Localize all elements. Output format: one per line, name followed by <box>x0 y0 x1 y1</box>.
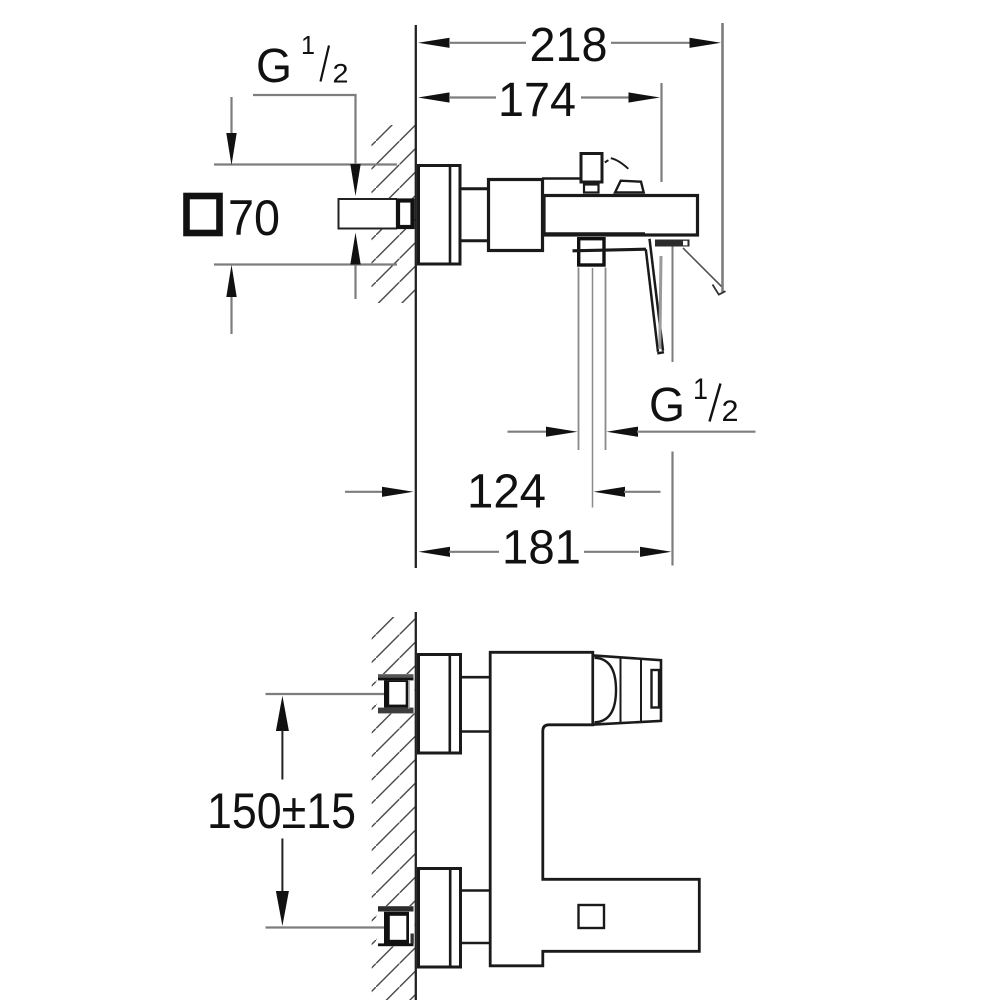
handle knob (front view) <box>593 655 661 724</box>
upper inlet flange bars <box>377 674 415 714</box>
reference line upper mount <box>266 693 385 695</box>
svg-text:218: 218 <box>530 19 608 72</box>
svg-text:1: 1 <box>693 373 708 406</box>
swing arc mark <box>605 158 629 169</box>
diverter knob <box>581 154 602 183</box>
wall line (front view) <box>415 612 417 1000</box>
lower union nut <box>384 912 414 944</box>
lower inlet flange bars <box>377 906 415 947</box>
arrow 70 top <box>226 97 236 165</box>
lower neck edges <box>462 891 491 944</box>
svg-text:2: 2 <box>722 395 739 428</box>
upper escutcheon <box>419 655 461 754</box>
svg-text:G: G <box>649 379 685 432</box>
aerator bar <box>655 240 690 247</box>
housing top step line <box>542 177 580 180</box>
lever blade <box>646 239 664 354</box>
G1/2 top leader line <box>253 94 357 96</box>
G1/2 leader to aerator <box>683 248 726 295</box>
dimension 181 <box>419 522 672 575</box>
escutcheon (top view) <box>419 166 461 265</box>
extension line 218 <box>721 23 724 292</box>
G1/2 arrow down <box>350 95 360 196</box>
lower escutcheon inner line <box>449 867 452 968</box>
body (top view) <box>544 196 698 236</box>
G1/2 top label <box>256 30 349 93</box>
svg-text:2: 2 <box>333 59 349 89</box>
body outline (front view) <box>490 652 699 966</box>
wall hatching (front view) <box>372 617 415 1000</box>
inlet nipple pipe <box>339 198 398 230</box>
dimension 218 <box>418 19 721 72</box>
square symbol of 70 <box>187 196 220 233</box>
neck lower edge <box>462 239 490 242</box>
svg-text:174: 174 <box>498 74 576 127</box>
svg-text:124: 124 <box>467 466 546 519</box>
arrow 70 bottom <box>226 265 236 334</box>
shower outlet square <box>579 239 604 265</box>
cartridge housing <box>489 180 543 251</box>
extension line 181 <box>671 452 673 566</box>
svg-text:70: 70 <box>228 190 280 246</box>
center line shower pipe <box>592 268 594 508</box>
svg-text:181: 181 <box>502 522 581 575</box>
G1/2 arrow up <box>350 233 360 300</box>
extension line 174 <box>660 83 662 182</box>
dimension line 70 upper <box>214 163 397 165</box>
upper union nut <box>384 680 413 709</box>
svg-text:G: G <box>256 40 292 93</box>
reference line lower mount <box>266 926 385 928</box>
extension lines shower pipe <box>579 268 606 451</box>
lever base trapezoid <box>615 181 644 193</box>
lower escutcheon <box>419 869 461 968</box>
body inner bottom line <box>545 232 645 234</box>
spout inner square <box>579 905 605 928</box>
dimension 124 <box>345 466 661 519</box>
svg-text:150±15: 150±15 <box>207 783 356 839</box>
escutcheon inner line <box>449 164 452 264</box>
dimension 150±15 <box>207 696 356 926</box>
dimension shower pipe width <box>508 427 756 437</box>
dimension line 70 lower <box>214 263 397 265</box>
lever bar <box>573 249 647 251</box>
union nut square <box>398 201 413 228</box>
dimension 174 <box>418 74 660 127</box>
extension line aerator center <box>672 247 674 363</box>
lever ghost position <box>660 256 661 349</box>
G1/2 bottom label <box>649 373 739 432</box>
knob base <box>584 185 599 193</box>
svg-text:1: 1 <box>301 30 315 60</box>
wall line (top view) <box>415 25 417 568</box>
wall hatching (top view) <box>372 125 416 303</box>
neck upper edge <box>462 187 490 190</box>
upper neck edges <box>462 677 491 731</box>
upper escutcheon inner line <box>448 653 451 754</box>
